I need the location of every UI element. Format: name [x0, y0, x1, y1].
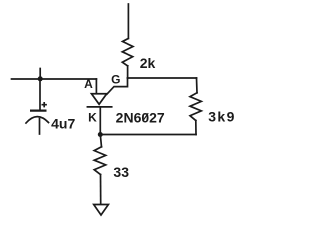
svg-text:3k9: 3k9	[208, 108, 236, 124]
wire: gate lead (diagonal + jog up to G node)	[107, 78, 128, 94]
wire: top supply lead	[127, 4, 129, 39]
pin label G (gate)	[111, 72, 120, 86]
label: 3k9	[208, 108, 236, 124]
wire: bottom horizontal to 3k9	[100, 134, 196, 136]
label: 2N6027	[116, 110, 165, 126]
ground	[94, 205, 109, 216]
wire: anode drop from rail	[95, 79, 97, 94]
pin label K (cathode)	[88, 110, 97, 124]
svg-text:K: K	[88, 110, 97, 124]
wire: 3k9 bottom lead	[195, 121, 197, 135]
svg-text:2k: 2k	[140, 55, 156, 71]
wire: 2k bottom lead to G node	[127, 66, 129, 78]
svg-text:4u7: 4u7	[51, 116, 75, 132]
svg-text:G: G	[111, 72, 120, 86]
svg-text:33: 33	[113, 164, 129, 180]
resistor R 3k9	[190, 93, 201, 121]
node: cathode junction	[98, 132, 103, 137]
svg-text:A: A	[84, 77, 93, 91]
wire: capacitor bottom lead	[39, 119, 41, 134]
wire: 3k9 top lead	[196, 78, 199, 93]
wire: 33 bottom lead to ground	[100, 175, 102, 205]
resistor R 33	[94, 147, 106, 175]
wire: stub above junction	[39, 69, 41, 80]
node: junction of rail and capacitor	[38, 76, 43, 81]
capacitor 4u7 (polarized)	[26, 102, 49, 123]
pin label A (anode)	[84, 77, 93, 91]
label: 33	[113, 164, 129, 180]
label: 2k	[140, 55, 156, 71]
resistor R 2k	[122, 39, 133, 66]
svg-text:2N6027: 2N6027	[116, 110, 165, 126]
wire: left horizontal rail	[12, 78, 97, 80]
wire: G node horizontal to 3k9	[128, 77, 197, 79]
transistor U1 2N6027 (PUT)	[87, 94, 111, 107]
wire: capacitor top lead	[39, 79, 41, 110]
label: 4u7	[51, 116, 75, 132]
wire: cathode lead down to node	[99, 107, 101, 135]
wire: 33 top lead	[100, 135, 101, 147]
